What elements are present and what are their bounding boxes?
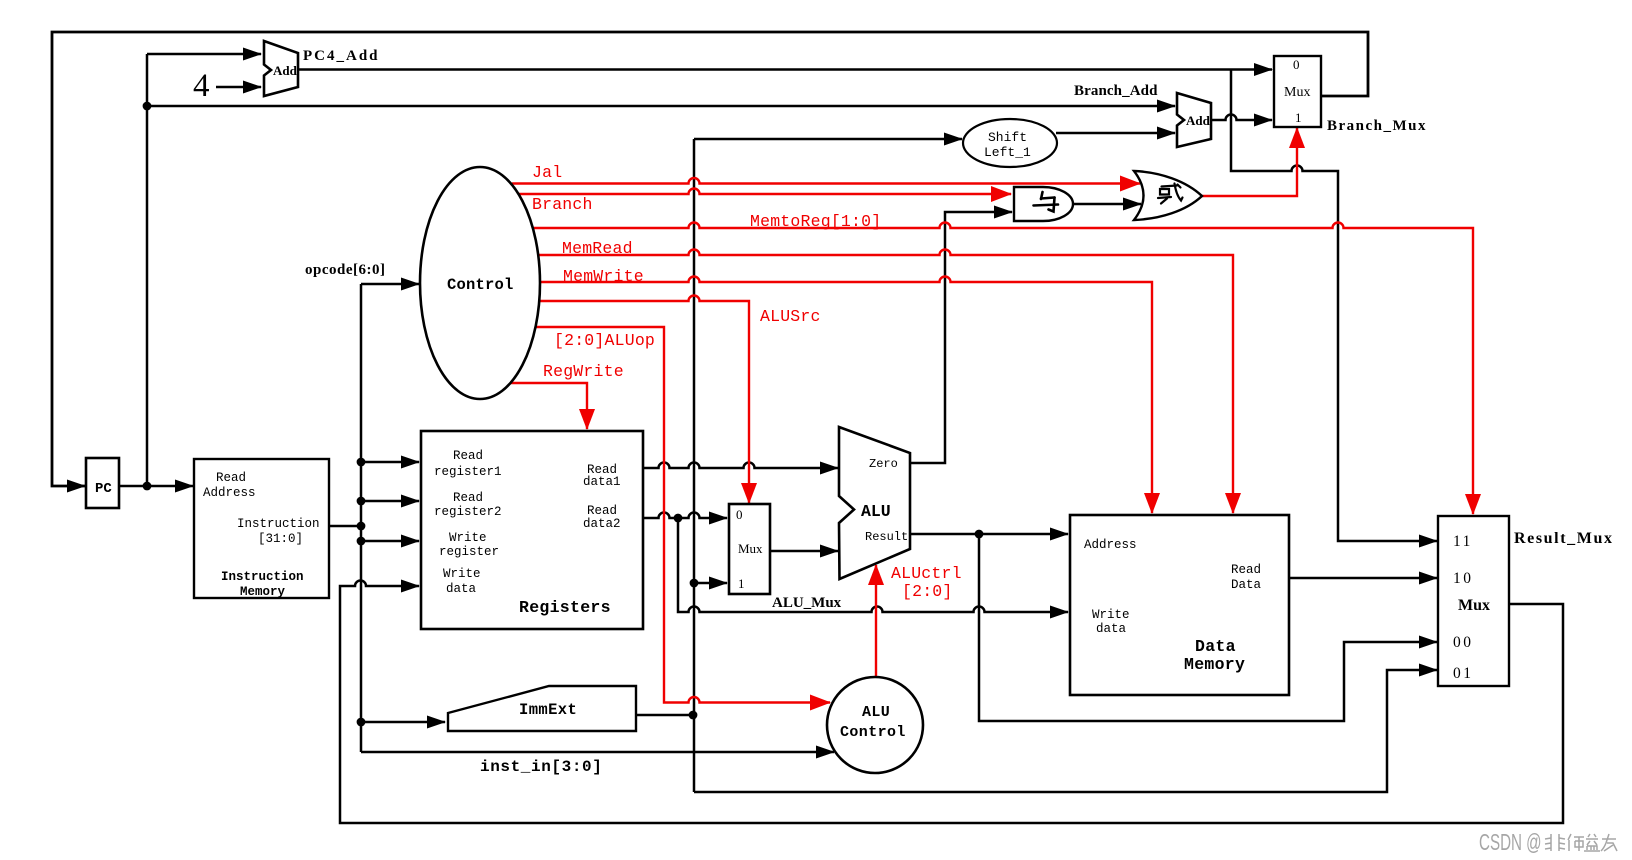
wire ImmExt output to vertical xyxy=(636,714,694,717)
svg-text:Mux: Mux xyxy=(1458,597,1490,614)
svg-text:data: data xyxy=(1096,622,1127,636)
gate text AND (Chinese yu) drawn as strokes xyxy=(1034,192,1059,212)
mux ALU_Mux xyxy=(729,504,770,594)
wire MemtoReg signal to Result_Mux select xyxy=(533,223,1473,515)
svg-text:[2:0]: [2:0] xyxy=(902,582,953,601)
svg-text:PC: PC xyxy=(95,481,112,497)
wire ImmExt to Result_Mux 01 xyxy=(694,670,1437,792)
node read data2 branch xyxy=(674,514,683,523)
svg-text:Address: Address xyxy=(203,486,256,500)
wire bus tap to ImmExt xyxy=(361,721,445,724)
node immext out xyxy=(689,711,698,720)
svg-text:register2: register2 xyxy=(434,505,502,519)
svg-text:Write: Write xyxy=(449,531,487,545)
node PC branch xyxy=(143,102,152,111)
svg-text:Read: Read xyxy=(453,449,483,463)
alu ALU xyxy=(839,427,910,579)
TEXTS BLACK BOLD SERIF LABELS xyxy=(193,48,1614,776)
wire ALUop signal to ALU Control xyxy=(536,327,830,703)
gate text OR (Chinese huo) drawn as strokes xyxy=(1158,184,1183,204)
wire Instruction Memory output xyxy=(329,525,362,528)
svg-text:data2: data2 xyxy=(583,517,621,531)
wire Branch signal xyxy=(517,189,1011,195)
svg-text:Read: Read xyxy=(1231,563,1261,577)
svg-text:Add: Add xyxy=(273,63,298,78)
svg-text:data1: data1 xyxy=(583,475,621,489)
wire OR output to Branch_Mux select xyxy=(1202,128,1297,196)
block Registers xyxy=(421,431,643,629)
svg-text:Read: Read xyxy=(587,504,617,518)
svg-text:RegWrite: RegWrite xyxy=(543,362,624,381)
wire bus tap read register2 xyxy=(361,500,419,503)
svg-text:Write: Write xyxy=(1092,608,1130,622)
svg-text:Registers: Registers xyxy=(519,598,611,617)
watermark Chinese handle drawn as strokes xyxy=(1545,834,1617,851)
wire inst_in to ALU Control xyxy=(361,751,834,754)
svg-text:0: 0 xyxy=(736,507,743,522)
svg-text:MemWrite: MemWrite xyxy=(563,267,644,286)
wire PC out to Instruction Memory xyxy=(119,485,193,488)
node PC out xyxy=(143,482,152,491)
svg-text:ALU_Mux: ALU_Mux xyxy=(772,595,842,611)
node bus immext xyxy=(357,718,366,727)
block ImmExt xyxy=(448,686,636,731)
gate AND xyxy=(1014,187,1073,221)
watermark CSDN xyxy=(1479,830,1542,856)
block Instruction Memory xyxy=(194,459,329,598)
mux Branch_Mux xyxy=(1274,56,1321,127)
wire AND output to OR gate xyxy=(1073,203,1141,206)
svg-text:Branch_Add: Branch_Add xyxy=(1074,83,1158,99)
svg-text:Control: Control xyxy=(447,276,514,294)
svg-text:[31:0]: [31:0] xyxy=(258,532,303,546)
wire ALU Result bypass to Result_Mux 00 xyxy=(979,534,1437,721)
wire RegWrite signal to Registers xyxy=(508,383,587,429)
svg-text:register1: register1 xyxy=(434,465,502,479)
svg-text:Jal: Jal xyxy=(532,163,562,182)
wire bus tap write register xyxy=(361,540,419,543)
node alu result branch xyxy=(975,530,984,539)
svg-text:Branch: Branch xyxy=(532,195,593,214)
wire ALU_Mux output to ALU xyxy=(770,550,838,553)
wire Read data2 to ALU_Mux 0 xyxy=(643,513,727,519)
wire ImmExt branch to ALU_Mux 1 xyxy=(694,582,727,585)
svg-text:Branch_Mux: Branch_Mux xyxy=(1327,118,1427,134)
svg-text:Shift: Shift xyxy=(988,130,1027,145)
wire PC value to Branch_Add top input y105 xyxy=(147,105,1175,108)
svg-text:ALUctrl: ALUctrl xyxy=(891,564,962,583)
wire instruction bus vertical x361 xyxy=(360,284,363,752)
svg-text:PC4_Add: PC4_Add xyxy=(303,48,380,64)
svg-text:Read: Read xyxy=(453,491,483,505)
svg-text:Mux: Mux xyxy=(738,541,763,556)
wire const 4 to PC4_Add xyxy=(216,86,261,89)
svg-text:Control: Control xyxy=(840,724,906,741)
svg-text:Zero: Zero xyxy=(869,457,898,471)
WIRES_RED xyxy=(508,128,1473,703)
svg-text:01: 01 xyxy=(1453,665,1474,682)
block Shift Left_1 xyxy=(963,119,1057,167)
node immext mux1 branch xyxy=(690,579,699,588)
SHAPES xyxy=(86,41,1509,773)
wire Read data2 branch to Data Memory write data xyxy=(678,518,1068,612)
node bus wreg xyxy=(357,537,366,546)
node bus rr2 xyxy=(357,497,366,506)
svg-text:Data: Data xyxy=(1231,578,1262,592)
svg-text:MemRead: MemRead xyxy=(562,239,633,258)
svg-text:Memory: Memory xyxy=(1184,655,1245,674)
wire ImmExt to Shift Left xyxy=(694,138,962,141)
wire PC+4 branch down to Result_Mux 11 xyxy=(1231,70,1437,542)
wire ImmExt distribution vertical x694 xyxy=(693,139,696,792)
svg-text:Instruction: Instruction xyxy=(221,570,304,584)
svg-text:Result_Mux: Result_Mux xyxy=(1514,530,1614,547)
svg-text:MemtoReg[1:0]: MemtoReg[1:0] xyxy=(750,212,881,231)
svg-text:ALUSrc: ALUSrc xyxy=(760,307,821,326)
wire MemWrite signal xyxy=(540,277,1152,514)
svg-text:0: 0 xyxy=(1293,57,1300,72)
svg-text:inst_in[3:0]: inst_in[3:0] xyxy=(480,758,602,776)
svg-text:10: 10 xyxy=(1453,570,1474,587)
wire bus tap read register1 xyxy=(361,461,419,464)
svg-text:11: 11 xyxy=(1453,533,1473,550)
svg-text:4: 4 xyxy=(193,68,210,104)
svg-text:Data: Data xyxy=(1195,637,1236,656)
svg-text:ALU: ALU xyxy=(861,502,891,521)
svg-text:00: 00 xyxy=(1453,634,1474,651)
svg-text:1: 1 xyxy=(1295,110,1302,125)
adder Branch_Add xyxy=(1177,93,1211,147)
mux Result_Mux xyxy=(1438,516,1509,686)
svg-text:register: register xyxy=(439,545,499,559)
block Control xyxy=(420,167,540,399)
svg-text:Memory: Memory xyxy=(240,585,286,599)
wire Branch_Add output to Branch_Mux 1 xyxy=(1212,115,1272,121)
svg-text:[2:0]ALUop: [2:0]ALUop xyxy=(554,331,655,350)
svg-text:Write: Write xyxy=(443,567,481,581)
block Data Memory xyxy=(1070,515,1289,695)
wire PC4_Add output to Branch_Mux 0 xyxy=(298,68,1272,71)
JUNCTION_DOTS xyxy=(143,102,984,727)
node bus instr xyxy=(357,522,366,531)
wire Shift Left output to Branch_Add xyxy=(1056,132,1175,135)
TEXTS RED SIGNAL LABELS xyxy=(532,163,962,601)
svg-text:Add: Add xyxy=(1186,113,1211,128)
svg-text:CSDN @: CSDN @ xyxy=(1479,830,1542,856)
svg-text:data: data xyxy=(446,582,477,596)
wire frame: Branch_Mux output to PC input xyxy=(52,32,1368,486)
svg-text:Read: Read xyxy=(216,471,246,485)
wire PC branch vertical x147 xyxy=(146,54,149,487)
wire Jal signal xyxy=(512,178,1140,184)
wire into PC4_Add top input xyxy=(147,53,261,56)
wire Data Memory read data to Result_Mux 10 xyxy=(1289,577,1437,580)
TEXTS MONO PORT LABELS xyxy=(95,57,1490,741)
gate OR xyxy=(1134,171,1202,220)
wire ALU Result to Data Memory address xyxy=(910,533,1068,536)
wire Result_Mux output feedback to Registers write data xyxy=(340,581,1563,824)
svg-text:1: 1 xyxy=(738,576,745,591)
wire Zero to AND gate xyxy=(910,212,1012,463)
wire opcode to Control xyxy=(361,283,419,286)
svg-text:ALU: ALU xyxy=(862,704,890,721)
register PC xyxy=(86,458,119,508)
svg-text:Instruction: Instruction xyxy=(237,517,320,531)
svg-text:Left_1: Left_1 xyxy=(984,145,1031,160)
svg-text:Mux: Mux xyxy=(1284,85,1310,100)
wire Read data1 to ALU xyxy=(643,463,838,469)
svg-text:opcode[6:0]: opcode[6:0] xyxy=(305,262,386,278)
svg-text:Address: Address xyxy=(1084,538,1137,552)
svg-text:Result: Result xyxy=(865,530,908,544)
node bus rr1 xyxy=(357,458,366,467)
block ALU Control xyxy=(827,677,923,773)
adder PC4_Add xyxy=(264,41,298,96)
wire MemRead signal xyxy=(538,250,1233,514)
svg-text:ImmExt: ImmExt xyxy=(519,701,577,719)
wire ALUSrc signal to ALU_Mux select xyxy=(539,296,749,503)
wire ALUctrl to ALU xyxy=(875,565,877,677)
